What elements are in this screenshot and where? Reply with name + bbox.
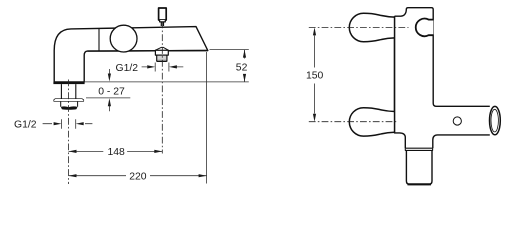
handle knob circle (110, 25, 137, 52)
front body outline (395, 8, 490, 149)
screw hole circle (453, 117, 461, 125)
148 dimension line (69, 150, 163, 152)
220 dimension line (69, 175, 207, 177)
inlet shank lines (61, 84, 75, 99)
arrow 0-27 down (108, 74, 111, 82)
arrow G1/2 left (points right) (54, 122, 62, 125)
svg-text:148: 148 (108, 147, 126, 158)
bottom outlet tube (406, 150, 432, 184)
diverter C-notch on right edge (416, 19, 434, 37)
arrow 220 right (199, 174, 207, 177)
arrow 220 left (69, 174, 77, 177)
G1/2 mid extension ticks (155, 63, 169, 72)
150 dimension line (314, 36, 316, 114)
150 dimension (314, 36, 316, 114)
lower knob (349, 108, 394, 136)
upper knob (349, 13, 394, 41)
spout end cap inner ellipse (491, 109, 498, 132)
svg-text:150: 150 (306, 70, 324, 81)
centerline inlet (68, 80, 70, 185)
spout end cap outer ellipse (490, 106, 501, 134)
centerline lower knob (309, 121, 398, 123)
shower outlet flange (155, 50, 168, 55)
flange-top extension line (0-27 lower) (86, 97, 130, 99)
arrow G1/2 left (points left) (76, 122, 84, 125)
faucet body outline (54, 27, 208, 82)
arrow 150 down (313, 114, 316, 122)
labels left view (14, 63, 248, 183)
arrow 148 right (154, 150, 162, 153)
body left seam line (394, 16, 396, 133)
52 top extension line from spout tip (210, 49, 249, 51)
arrow 150 up (313, 27, 316, 35)
arrow 148 left (69, 150, 77, 153)
body bottom line (88, 50, 208, 53)
G1/2 left dim line (43, 123, 93, 125)
spout tip projection line (206, 52, 208, 184)
centerline diverter / shower outlet (161, 22, 163, 154)
trunk base plate (bold) (53, 82, 84, 84)
collar under body (405, 148, 432, 150)
shower outlet thread G1/2 (157, 55, 167, 61)
tube bottom bold edge (408, 183, 432, 185)
mounting nut (61, 102, 78, 107)
52 dimension line (244, 50, 246, 82)
seam line between elbow and body (98, 29, 100, 52)
G1/2 left extension ticks (62, 119, 76, 129)
deck reference line (84, 81, 249, 83)
centerlines right view (309, 27, 409, 121)
arrow 52 up (243, 50, 246, 58)
shower outlet dome (155, 47, 169, 50)
arrow G1/2 mid left (points right) (147, 65, 155, 68)
svg-text:52: 52 (236, 63, 248, 74)
0-27 arrow tails (108, 69, 110, 111)
mounting flange plate (54, 99, 84, 102)
arrow G1/2 mid right (points left) (169, 65, 177, 68)
diverter knob on top (159, 8, 167, 26)
arrow 0-27 up (108, 98, 111, 106)
arrow 52 down (243, 74, 246, 82)
centerline upper knob (309, 26, 409, 28)
svg-text:G1/2: G1/2 (14, 119, 37, 130)
G1/2 mid dim line (142, 66, 184, 68)
svg-text:G1/2: G1/2 (116, 63, 139, 74)
svg-text:0 - 27: 0 - 27 (98, 87, 125, 98)
svg-text:220: 220 (129, 172, 147, 183)
